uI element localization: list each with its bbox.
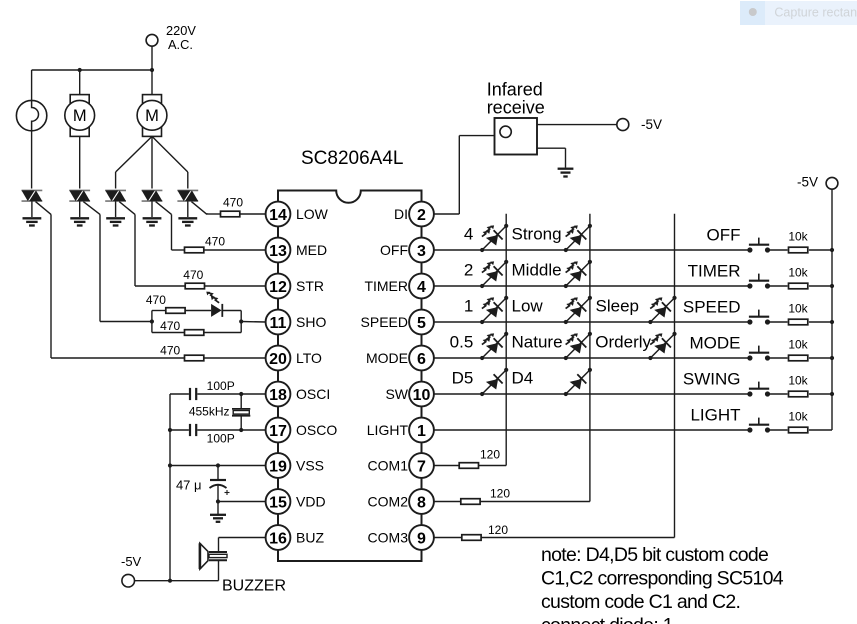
svg-text:100P: 100P	[207, 431, 235, 445]
svg-text:TIMER: TIMER	[364, 278, 408, 294]
svg-text:A.C.: A.C.	[168, 37, 193, 52]
svg-text:TIMER: TIMER	[688, 262, 741, 281]
svg-text:DI: DI	[394, 206, 408, 222]
svg-text:SW: SW	[385, 386, 408, 402]
svg-text:470: 470	[223, 196, 243, 210]
svg-text:LIGHT: LIGHT	[367, 422, 409, 438]
svg-text:4: 4	[464, 225, 473, 244]
svg-text:Nature: Nature	[512, 333, 563, 352]
svg-text:SPEED: SPEED	[361, 314, 408, 330]
svg-text:10k: 10k	[788, 409, 808, 423]
svg-text:note: D4,D5 bit custom code: note: D4,D5 bit custom code	[541, 544, 768, 566]
svg-text:17: 17	[269, 423, 287, 440]
svg-text:19: 19	[269, 458, 287, 475]
svg-text:16: 16	[269, 530, 287, 547]
svg-text:Middle: Middle	[512, 261, 562, 280]
svg-text:MED: MED	[296, 242, 327, 258]
svg-text:D5: D5	[452, 369, 474, 388]
svg-text:470: 470	[183, 268, 203, 282]
svg-text:120: 120	[488, 523, 508, 537]
svg-text:OFF: OFF	[380, 242, 408, 258]
svg-text:120: 120	[490, 486, 510, 500]
svg-text:10k: 10k	[788, 265, 808, 279]
svg-text:2: 2	[464, 261, 473, 280]
svg-text:13: 13	[269, 243, 287, 260]
svg-text:47 μ: 47 μ	[176, 478, 202, 493]
svg-text:LOW: LOW	[296, 206, 329, 222]
svg-text:M: M	[145, 107, 159, 125]
svg-text:0.5: 0.5	[450, 333, 474, 352]
svg-text:470: 470	[205, 234, 225, 248]
svg-text:10k: 10k	[788, 373, 808, 387]
svg-text:BUZ: BUZ	[296, 530, 324, 546]
svg-text:COM1: COM1	[368, 458, 409, 474]
svg-text:Capture rectangle: Capture rectangle	[774, 6, 857, 20]
svg-text:Sleep: Sleep	[596, 297, 639, 316]
svg-text:-5V: -5V	[641, 117, 662, 132]
svg-text:Infared: Infared	[487, 79, 543, 99]
svg-text:OSCO: OSCO	[296, 422, 337, 438]
svg-text:4: 4	[417, 279, 426, 296]
svg-text:SHO: SHO	[296, 314, 326, 330]
svg-text:12: 12	[269, 279, 287, 296]
svg-text:Strong: Strong	[512, 225, 562, 244]
svg-text:470: 470	[160, 344, 180, 358]
svg-text:OFF: OFF	[707, 226, 741, 245]
svg-text:C1,C2 corresponding SC5104: C1,C2 corresponding SC5104	[541, 568, 784, 590]
svg-text:BUZZER: BUZZER	[222, 578, 286, 595]
svg-text:5: 5	[417, 315, 426, 332]
svg-text:-5V: -5V	[797, 175, 818, 190]
svg-text:MODE: MODE	[366, 350, 408, 366]
svg-text:220V: 220V	[166, 23, 196, 38]
svg-text:LIGHT: LIGHT	[690, 406, 740, 425]
svg-text:custom code C1 and C2.: custom code C1 and C2.	[541, 591, 740, 613]
svg-text:STR: STR	[296, 278, 324, 294]
svg-text:D4: D4	[512, 369, 534, 388]
svg-text:SPEED: SPEED	[683, 298, 741, 317]
svg-text:SWING: SWING	[683, 370, 741, 389]
svg-text:6: 6	[417, 351, 426, 368]
svg-text:receive: receive	[487, 98, 545, 118]
svg-text:120: 120	[480, 448, 500, 462]
svg-text:15: 15	[269, 494, 287, 511]
svg-text:SC8206A4L: SC8206A4L	[301, 148, 403, 169]
svg-text:10k: 10k	[788, 337, 808, 351]
svg-text:455kHz: 455kHz	[189, 404, 230, 418]
svg-text:10k: 10k	[788, 301, 808, 315]
svg-text:11: 11	[270, 315, 287, 332]
svg-text:1: 1	[417, 423, 426, 440]
svg-text:470: 470	[146, 293, 166, 307]
svg-text:COM2: COM2	[368, 494, 409, 510]
svg-text:3: 3	[417, 243, 426, 260]
svg-text:OSCI: OSCI	[296, 386, 330, 402]
svg-text:9: 9	[417, 530, 426, 547]
svg-text:Orderly: Orderly	[595, 333, 651, 352]
svg-text:2: 2	[417, 207, 426, 224]
svg-text:10: 10	[413, 387, 431, 404]
svg-text:8: 8	[417, 494, 426, 511]
svg-text:LTO: LTO	[296, 350, 322, 366]
svg-text:18: 18	[269, 387, 287, 404]
svg-text:VSS: VSS	[296, 458, 324, 474]
svg-text:20: 20	[269, 351, 287, 368]
svg-text:14: 14	[269, 207, 287, 224]
svg-text:1: 1	[464, 297, 473, 316]
svg-text:-5V: -5V	[121, 554, 142, 569]
svg-text:470: 470	[160, 319, 180, 333]
svg-text:VDD: VDD	[296, 494, 326, 510]
svg-text:M: M	[73, 107, 87, 125]
svg-text:100P: 100P	[207, 379, 235, 393]
svg-text:connect diode: 1: connect diode: 1	[541, 615, 673, 624]
svg-text:Low: Low	[512, 297, 544, 316]
svg-text:COM3: COM3	[368, 530, 409, 546]
svg-text:MODE: MODE	[690, 334, 741, 353]
svg-text:7: 7	[417, 458, 426, 475]
svg-text:10k: 10k	[788, 229, 808, 243]
